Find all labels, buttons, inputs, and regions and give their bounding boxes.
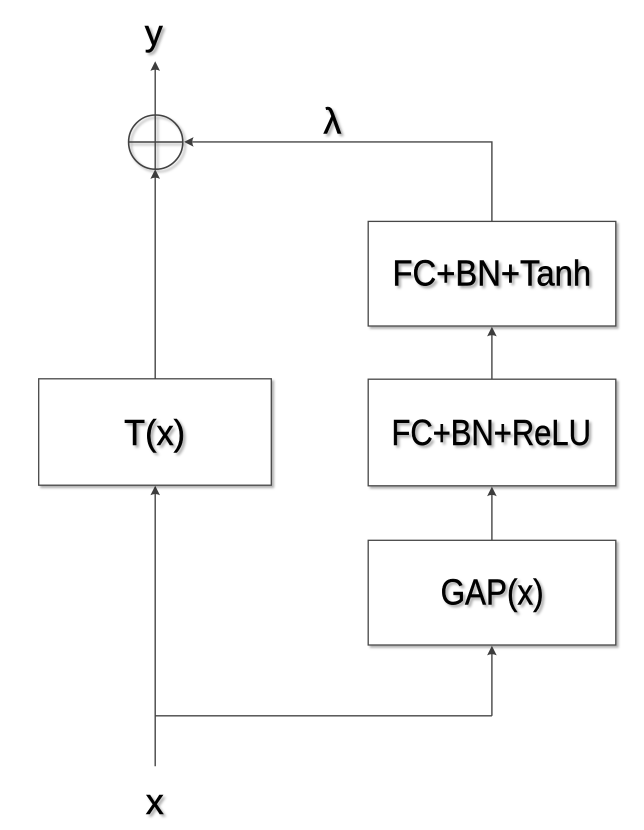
block T(x) xyxy=(39,379,272,485)
wire: x input to T(x) (vertical, arrow up into T bottom) xyxy=(150,486,160,767)
wire: branch to GAP(x) (vertical, arrow up into GAP bottom) xyxy=(487,646,497,716)
wire: FC+BN+ReLU to FC+BN+Tanh (vertical, arrow up) xyxy=(487,327,497,379)
svg-text:x: x xyxy=(146,781,164,822)
adder node: circle with plus xyxy=(129,115,183,169)
wire: GAP(x) to FC+BN+ReLU (vertical, arrow up) xyxy=(487,487,497,541)
wire: adder to y output (vertical, arrow up) xyxy=(150,61,160,114)
block GAP(x) xyxy=(368,540,616,645)
svg-text:T(x): T(x) xyxy=(124,412,185,453)
wire: T(x) to adder (vertical, arrow up into circle bottom) xyxy=(150,169,160,378)
svg-text:GAP(x): GAP(x) xyxy=(441,571,544,612)
block FC+BN+Tanh xyxy=(368,221,616,326)
svg-text:FC+BN+ReLU: FC+BN+ReLU xyxy=(391,412,591,453)
wire: FC+BN+Tanh to adder (feedback, elbow, arrow left into circle right) xyxy=(184,137,492,221)
block FC+BN+ReLU xyxy=(368,379,616,486)
svg-text:y: y xyxy=(145,12,163,53)
svg-text:FC+BN+Tanh: FC+BN+Tanh xyxy=(393,253,592,294)
svg-text:λ: λ xyxy=(323,100,341,141)
wire: branch horizontal from x-stem to below GAP(x) xyxy=(155,715,492,717)
